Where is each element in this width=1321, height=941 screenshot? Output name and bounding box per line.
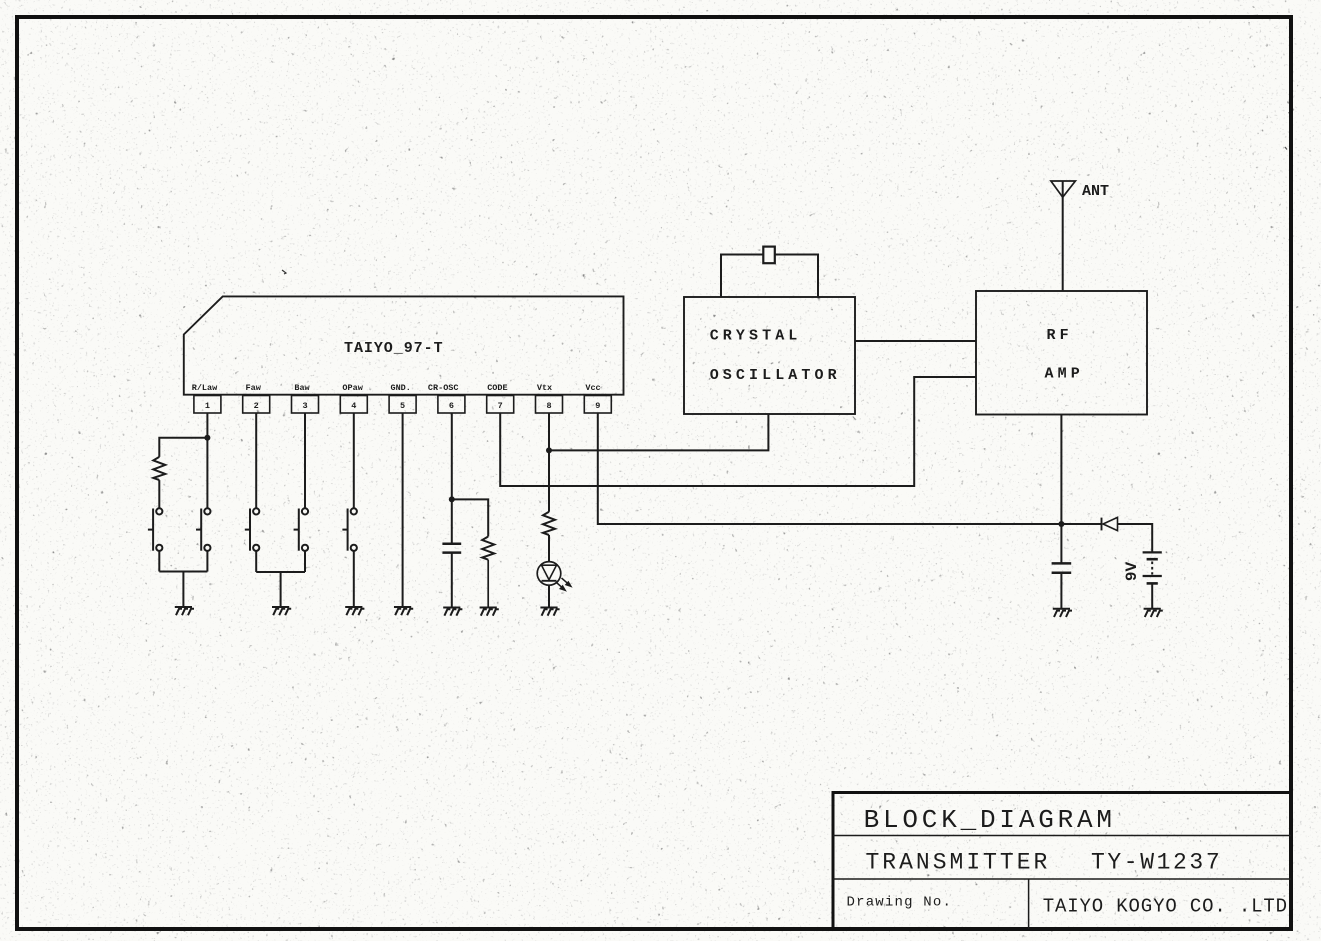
wire pin2 down bbox=[255, 413, 257, 508]
svg-text:1: 1 bbox=[205, 401, 210, 411]
wire SW1-SW2 join bbox=[159, 571, 207, 573]
wire pin1 down bbox=[206, 413, 208, 508]
ground G1 bbox=[175, 607, 194, 615]
pin 2 box bbox=[243, 396, 270, 414]
svg-text:Baw: Baw bbox=[294, 383, 310, 393]
title block left border bbox=[832, 791, 835, 929]
battery BT1 plate long 2 bbox=[1143, 575, 1162, 577]
svg-text:GND.: GND. bbox=[390, 383, 410, 393]
capacitor C2 bottom plate bbox=[1052, 572, 1072, 575]
battery BT1 plate long 1 bbox=[1143, 551, 1162, 553]
pin 8 box bbox=[536, 396, 563, 414]
wire RF AMP bottom to Vcc rail bbox=[1060, 415, 1062, 525]
capacitor C1 bottom plate bbox=[442, 551, 461, 554]
svg-text:TAIYO KOGYO CO. .LTD: TAIYO KOGYO CO. .LTD bbox=[1043, 896, 1288, 918]
wire LED to ground bbox=[548, 585, 550, 607]
pin 7 box bbox=[487, 396, 514, 414]
resistor R2 bbox=[543, 512, 555, 535]
wire J3 to crystal oscillator bottom bbox=[549, 414, 768, 450]
svg-text:Vtx: Vtx bbox=[537, 383, 552, 393]
svg-text:BLOCK_DIAGRAM: BLOCK_DIAGRAM bbox=[864, 805, 1116, 835]
wire J1 to resistor branch bbox=[159, 438, 207, 457]
svg-text:4: 4 bbox=[351, 401, 356, 411]
wire J4 to diode bbox=[1061, 523, 1101, 525]
scan scuff mark 3 bbox=[1285, 147, 1287, 150]
wire pin4 down bbox=[353, 413, 355, 508]
switch SW3 bbox=[245, 508, 260, 551]
title block row separator 2 bbox=[833, 878, 1291, 880]
wire join to ground stub 2 bbox=[280, 572, 282, 607]
svg-text:ANT: ANT bbox=[1082, 183, 1109, 200]
antenna symbol bbox=[1051, 181, 1076, 197]
wire join to ground stub bbox=[182, 572, 184, 608]
wire J2 to R3 branch bbox=[452, 499, 488, 536]
battery BT1 dashed link bbox=[1151, 562, 1153, 575]
IC U1 TAIYO_97-T body bbox=[184, 296, 624, 394]
svg-text:CRYSTAL: CRYSTAL bbox=[710, 328, 802, 345]
LED D2 emission arrow 2 bbox=[562, 578, 571, 586]
pin 1 box bbox=[194, 396, 221, 414]
svg-text:CR-OSC: CR-OSC bbox=[428, 383, 459, 393]
ground G5 bbox=[443, 608, 462, 616]
svg-text:R/Law: R/Law bbox=[192, 383, 218, 393]
ground G9 bbox=[1144, 609, 1163, 617]
LED D2 circle bbox=[537, 562, 561, 586]
RF AMP block U3 bbox=[976, 291, 1147, 415]
wire crystal loop left bbox=[721, 255, 763, 298]
scan scuff mark 2 bbox=[1289, 112, 1291, 116]
ground G4 bbox=[394, 607, 413, 615]
capacitor C2 top plate bbox=[1052, 562, 1072, 565]
wire battery to ground bbox=[1151, 583, 1153, 608]
pin 9 box bbox=[584, 396, 611, 414]
wire pin6 down bbox=[451, 413, 453, 544]
wire pin5 to ground bbox=[402, 413, 404, 607]
wire crystal oscillator to RF AMP bbox=[855, 340, 976, 342]
wire SW2 bottom bbox=[206, 551, 208, 572]
svg-text:TY-W1237: TY-W1237 bbox=[1091, 850, 1222, 876]
wire R2 to LED bbox=[548, 535, 550, 562]
wire SW1 bottom bbox=[158, 551, 160, 572]
crystal oscillator block U2 bbox=[684, 297, 855, 414]
resistor R3 bbox=[482, 537, 494, 560]
wire pin8 down bbox=[548, 413, 550, 512]
svg-text:9V: 9V bbox=[1123, 562, 1141, 582]
node junction J3 on pin8 bbox=[546, 447, 552, 453]
svg-text:OPaw: OPaw bbox=[342, 383, 363, 393]
node junction J2 on pin6 bbox=[449, 496, 455, 502]
title block top border bbox=[832, 791, 1292, 794]
title block row separator 1 bbox=[833, 835, 1291, 837]
diode D1 cathode bar bbox=[1101, 518, 1103, 531]
wire SW3 bottom bbox=[255, 551, 257, 572]
wire SW5 to ground bbox=[353, 551, 355, 607]
svg-text:6: 6 bbox=[449, 401, 454, 411]
ground G7 bbox=[540, 608, 559, 616]
switch SW4 bbox=[294, 508, 309, 551]
svg-text:Drawing No.: Drawing No. bbox=[847, 895, 953, 911]
pin 5 box bbox=[389, 396, 416, 414]
wire pin7 down and right to RF AMP bbox=[500, 377, 976, 486]
diode D1 triangle bbox=[1103, 517, 1118, 530]
wire C2 to ground bbox=[1060, 573, 1062, 609]
wire pin3 down bbox=[304, 413, 306, 508]
ground G2 bbox=[272, 607, 291, 615]
capacitor C1 top plate bbox=[442, 543, 461, 546]
wire R3 to ground bbox=[487, 560, 489, 608]
svg-text:5: 5 bbox=[400, 401, 405, 411]
wire crystal loop right bbox=[775, 255, 818, 298]
battery BT1 plate short 1 bbox=[1147, 558, 1158, 561]
scan scuff mark 1 bbox=[282, 270, 286, 274]
switch SW1 bbox=[148, 508, 163, 551]
title block vertical divider bbox=[1028, 879, 1030, 929]
wire R1 to switch SW1 bbox=[158, 480, 160, 508]
svg-text:AMP: AMP bbox=[1045, 366, 1084, 383]
ground G3 bbox=[345, 607, 364, 615]
svg-text:2: 2 bbox=[254, 401, 259, 411]
svg-text:Faw: Faw bbox=[246, 383, 262, 393]
wire pin9 down and right (Vcc rail) bbox=[598, 413, 1062, 524]
svg-text:9: 9 bbox=[595, 401, 600, 411]
node junction J4 Vcc bbox=[1058, 521, 1064, 527]
svg-text:3: 3 bbox=[302, 401, 307, 411]
switch SW2 bbox=[196, 508, 211, 551]
ground G8 bbox=[1053, 609, 1072, 617]
wire J4 to C2 bbox=[1060, 524, 1062, 563]
wire diode to battery bbox=[1118, 524, 1153, 552]
svg-text:8: 8 bbox=[546, 401, 551, 411]
switch SW5 bbox=[342, 508, 357, 551]
ground G6 bbox=[480, 608, 499, 616]
wire RF AMP to antenna bbox=[1062, 182, 1064, 292]
crystal X1 bbox=[763, 247, 775, 264]
LED D2 triangle bbox=[542, 565, 557, 580]
svg-text:7: 7 bbox=[498, 401, 503, 411]
svg-text:OSCILLATOR: OSCILLATOR bbox=[710, 367, 841, 384]
svg-text:RF: RF bbox=[1047, 327, 1073, 344]
wire SW3-SW4 join bbox=[256, 571, 305, 573]
wire SW4 bottom bbox=[304, 551, 306, 572]
wire C1 to ground bbox=[451, 553, 453, 608]
node junction J1 on pin1 bbox=[204, 435, 210, 441]
svg-text:CODE: CODE bbox=[487, 383, 507, 393]
pin 3 box bbox=[292, 396, 319, 414]
svg-text:TAIYO_97-T: TAIYO_97-T bbox=[344, 340, 444, 357]
pin 4 box bbox=[340, 396, 367, 414]
pin 6 box bbox=[438, 396, 465, 414]
LED D2 cathode bar bbox=[542, 580, 557, 582]
resistor R1 bbox=[153, 457, 165, 480]
LED D2 emission arrow 1 bbox=[556, 582, 565, 590]
svg-text:Vcc: Vcc bbox=[585, 383, 600, 393]
svg-text:TRANSMITTER: TRANSMITTER bbox=[866, 850, 1051, 876]
battery BT1 plate short 2 bbox=[1147, 582, 1158, 585]
